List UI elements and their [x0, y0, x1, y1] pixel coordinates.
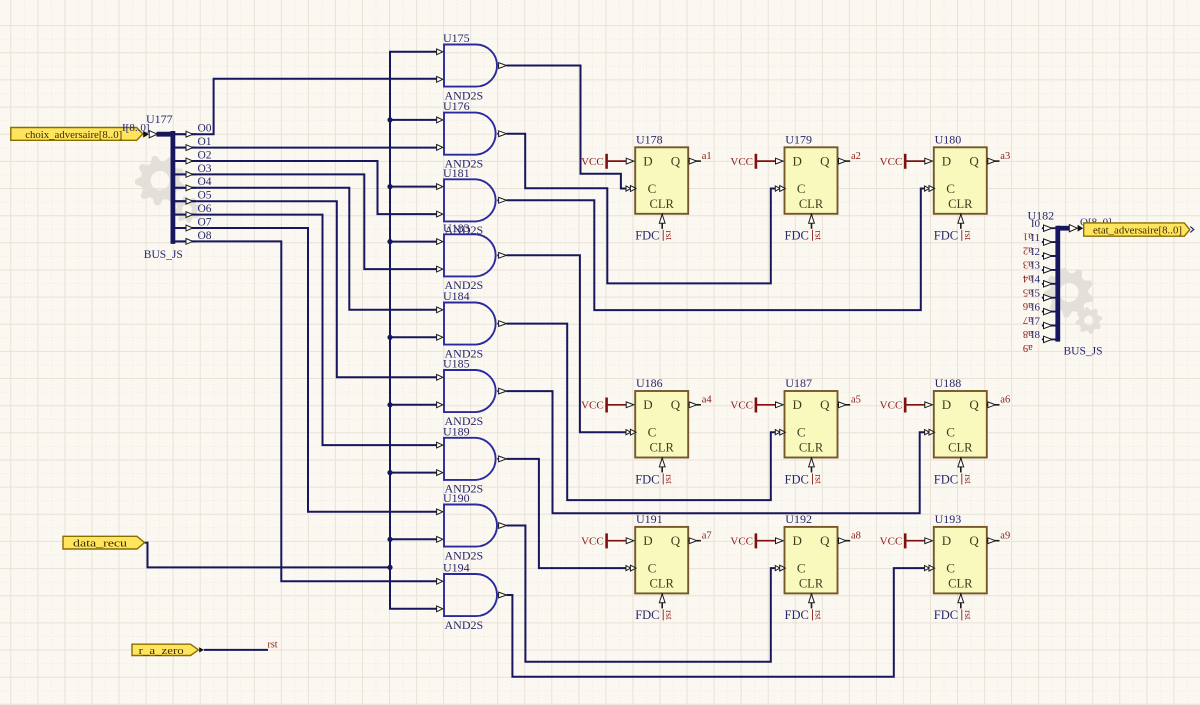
- svg-text:U176: U176: [443, 99, 470, 113]
- svg-text:O3: O3: [198, 163, 212, 175]
- svg-text:U179: U179: [785, 133, 812, 147]
- svg-text:U182: U182: [1028, 209, 1055, 223]
- svg-text:U184: U184: [443, 289, 470, 303]
- svg-text:etat_adversaire[8..0]: etat_adversaire[8..0]: [1093, 225, 1182, 237]
- AND gate U184: [437, 289, 507, 360]
- svg-text:r_a_zero: r_a_zero: [139, 645, 185, 657]
- junction data_recu 1: [387, 117, 392, 122]
- svg-text:D: D: [643, 533, 652, 548]
- wire data_recu tap 4: [390, 336, 437, 338]
- svg-text:C: C: [946, 561, 955, 576]
- svg-text:CLR: CLR: [799, 441, 824, 455]
- wire net O2: [175, 161, 436, 214]
- wire U194.out to U193.C: [507, 568, 925, 677]
- svg-text:VCC: VCC: [581, 536, 604, 548]
- svg-text:O1: O1: [198, 136, 212, 148]
- net tag r_a_zero with rst wire: [132, 639, 278, 657]
- svg-text:Q: Q: [969, 154, 979, 169]
- svg-text:Q: Q: [969, 397, 979, 412]
- svg-text:D: D: [643, 154, 652, 169]
- svg-text:CLR: CLR: [948, 577, 973, 591]
- svg-text:U189: U189: [443, 424, 470, 438]
- svg-text:VCC: VCC: [581, 400, 604, 412]
- svg-text:U188: U188: [935, 376, 962, 390]
- power VCC for U186: [581, 398, 626, 413]
- svg-text:C: C: [648, 181, 657, 196]
- svg-text:D: D: [793, 154, 802, 169]
- svg-text:FDC: FDC: [785, 472, 809, 486]
- AND gate U181: [437, 166, 507, 237]
- wire U189.out to U191.C: [507, 459, 627, 568]
- svg-text:Q: Q: [820, 154, 830, 169]
- svg-text:U181: U181: [443, 166, 470, 180]
- power VCC for U179: [730, 154, 775, 169]
- wire net O0: [175, 79, 436, 134]
- wire data_recu tap 3: [390, 241, 437, 243]
- svg-text:Q: Q: [820, 533, 830, 548]
- svg-text:C: C: [797, 561, 806, 576]
- svg-text:rst: rst: [663, 231, 673, 241]
- junction data_recu 6: [387, 470, 392, 475]
- svg-text:C: C: [946, 425, 955, 440]
- junction data_recu 8: [387, 565, 392, 570]
- svg-text:FDC: FDC: [934, 472, 958, 486]
- wire net O4: [175, 188, 436, 310]
- svg-text:U194: U194: [443, 561, 470, 575]
- svg-text:O2: O2: [198, 149, 212, 161]
- svg-text:O6: O6: [198, 203, 212, 215]
- wire from data_recu tag: [145, 543, 391, 568]
- svg-text:O8: O8: [198, 230, 212, 242]
- AND gate U183: [437, 221, 507, 292]
- AND gate U185: [437, 357, 507, 428]
- svg-text:a3: a3: [1023, 259, 1033, 270]
- svg-text:U190: U190: [443, 491, 470, 505]
- svg-text:C: C: [648, 561, 657, 576]
- svg-text:U186: U186: [636, 376, 663, 390]
- watermark gears left: [135, 156, 200, 223]
- svg-text:Q: Q: [671, 154, 681, 169]
- svg-text:C: C: [797, 181, 806, 196]
- svg-text:D: D: [793, 397, 802, 412]
- svg-text:data_recu: data_recu: [73, 538, 128, 550]
- svg-text:FDC: FDC: [785, 608, 809, 622]
- power VCC for U180: [880, 154, 925, 169]
- svg-text:FDC: FDC: [934, 229, 958, 243]
- junction data_recu 5: [387, 402, 392, 407]
- power VCC for U192: [730, 533, 775, 548]
- svg-text:AND2S: AND2S: [445, 618, 484, 632]
- power VCC for U188: [880, 398, 925, 413]
- svg-text:CLR: CLR: [650, 441, 675, 455]
- wire net O8: [175, 241, 436, 581]
- svg-text:choix_adversaire[8..0]: choix_adversaire[8..0]: [25, 129, 122, 141]
- net tag etat_adversaire[8..0]: [1084, 223, 1194, 237]
- svg-text:a9: a9: [1000, 531, 1010, 542]
- svg-text:VCC: VCC: [730, 400, 753, 412]
- wire data_recu tap 1: [390, 119, 437, 121]
- wire net O1: [175, 147, 436, 149]
- svg-text:Q: Q: [820, 397, 830, 412]
- svg-text:rst: rst: [813, 231, 823, 241]
- power VCC for U187: [730, 398, 775, 413]
- junction data_recu 2: [387, 184, 392, 189]
- svg-text:a1: a1: [702, 151, 712, 162]
- svg-text:FDC: FDC: [934, 608, 958, 622]
- flip-flop U192 (FDC): [775, 512, 861, 622]
- svg-text:a2: a2: [851, 151, 861, 162]
- junction data_recu 4: [387, 335, 392, 340]
- bus combiner U182: [1022, 209, 1102, 358]
- svg-text:D: D: [643, 397, 652, 412]
- AND gate U189: [437, 424, 507, 495]
- svg-text:CLR: CLR: [948, 441, 973, 455]
- svg-text:BUS_JS: BUS_JS: [1064, 345, 1103, 357]
- bus splitter U177: [122, 112, 212, 261]
- svg-text:rst: rst: [962, 474, 972, 484]
- svg-text:C: C: [648, 425, 657, 440]
- wire data_recu tap 5: [390, 404, 437, 406]
- svg-text:rst: rst: [962, 610, 972, 620]
- svg-text:U191: U191: [636, 512, 663, 526]
- svg-text:VCC: VCC: [730, 536, 753, 548]
- power VCC for U178: [581, 154, 626, 169]
- svg-text:VCC: VCC: [880, 400, 903, 412]
- svg-text:a1: a1: [1023, 231, 1033, 242]
- svg-text:U185: U185: [443, 357, 470, 371]
- flip-flop U179 (FDC): [775, 133, 861, 243]
- svg-text:a3: a3: [1000, 151, 1010, 162]
- net tag data_recu: [63, 536, 145, 549]
- svg-text:O7: O7: [198, 216, 212, 228]
- wire U183.out to U186.C: [507, 255, 627, 432]
- svg-text:a2: a2: [1023, 245, 1033, 256]
- wire data_recu tap 2: [390, 186, 437, 188]
- svg-text:CLR: CLR: [650, 197, 675, 211]
- svg-text:a7: a7: [702, 531, 712, 542]
- flip-flop U193 (FDC): [925, 512, 1011, 622]
- svg-text:a6: a6: [1023, 300, 1033, 311]
- svg-text:VCC: VCC: [581, 156, 604, 168]
- svg-text:D: D: [942, 154, 951, 169]
- svg-text:CLR: CLR: [650, 577, 675, 591]
- wire U181.out to U180.C: [507, 189, 925, 311]
- wire net O7: [175, 228, 436, 512]
- svg-text:U180: U180: [935, 133, 962, 147]
- svg-text:U178: U178: [636, 133, 663, 147]
- net tag choix_adversaire[8..0]: [11, 128, 143, 141]
- AND gate U194: [437, 561, 507, 632]
- svg-text:D: D: [793, 533, 802, 548]
- svg-text:rst: rst: [663, 610, 673, 620]
- svg-text:a8: a8: [851, 531, 861, 542]
- flip-flop U187 (FDC): [775, 376, 861, 486]
- svg-text:a5: a5: [851, 395, 861, 406]
- wire U184.out to U187.C: [507, 324, 776, 501]
- svg-text:C: C: [946, 181, 955, 196]
- svg-text:VCC: VCC: [880, 156, 903, 168]
- wire U175.out to U178.C: [507, 66, 627, 189]
- wire U190.out to U192.C: [507, 526, 776, 662]
- svg-text:FDC: FDC: [635, 472, 659, 486]
- svg-text:rst: rst: [813, 610, 823, 620]
- svg-text:U177: U177: [146, 112, 173, 126]
- flip-flop U186 (FDC): [626, 376, 712, 486]
- power VCC for U191: [581, 533, 626, 548]
- svg-text:Q: Q: [671, 533, 681, 548]
- junction data_recu 7: [387, 537, 392, 542]
- svg-text:I[8..0]: I[8..0]: [122, 122, 150, 134]
- watermark gears right: [1044, 268, 1102, 334]
- wire net O5: [175, 201, 436, 377]
- svg-text:a9: a9: [1023, 342, 1033, 353]
- svg-text:U183: U183: [443, 221, 470, 235]
- svg-text:VCC: VCC: [730, 156, 753, 168]
- svg-text:O0: O0: [198, 123, 212, 135]
- AND gate U175: [437, 31, 507, 102]
- flip-flop U191 (FDC): [626, 512, 712, 622]
- svg-text:Q: Q: [969, 533, 979, 548]
- svg-text:O5: O5: [198, 190, 212, 202]
- svg-text:O4: O4: [198, 176, 212, 188]
- svg-text:FDC: FDC: [635, 229, 659, 243]
- svg-text:D: D: [942, 397, 951, 412]
- svg-text:Q: Q: [671, 397, 681, 412]
- svg-text:rst: rst: [813, 474, 823, 484]
- svg-text:a4: a4: [702, 395, 713, 406]
- svg-text:CLR: CLR: [799, 577, 824, 591]
- svg-text:a4: a4: [1022, 272, 1033, 283]
- AND gate U176: [437, 99, 507, 170]
- wire data_recu vertical trunk: [390, 52, 437, 609]
- AND gate U190: [437, 491, 507, 562]
- svg-text:C: C: [797, 425, 806, 440]
- svg-text:D: D: [942, 533, 951, 548]
- svg-text:U193: U193: [935, 512, 962, 526]
- svg-text:BUS_JS: BUS_JS: [144, 249, 183, 261]
- svg-text:a6: a6: [1000, 395, 1010, 406]
- wire U176.out to U179.C: [507, 134, 776, 284]
- svg-text:U192: U192: [785, 512, 812, 526]
- svg-text:VCC: VCC: [880, 536, 903, 548]
- svg-text:a8: a8: [1023, 328, 1033, 339]
- power VCC for U193: [880, 533, 925, 548]
- svg-text:U175: U175: [443, 31, 470, 45]
- svg-text:U187: U187: [785, 376, 812, 390]
- flip-flop U180 (FDC): [925, 133, 1011, 243]
- wire net O6: [175, 215, 436, 446]
- svg-text:rst: rst: [962, 231, 972, 241]
- svg-text:CLR: CLR: [799, 197, 824, 211]
- wire data_recu tap 7: [390, 538, 437, 540]
- svg-text:FDC: FDC: [785, 229, 809, 243]
- wire data_recu tap 6: [390, 472, 437, 474]
- flip-flop U178 (FDC): [626, 133, 712, 243]
- svg-text:rst: rst: [268, 639, 278, 650]
- svg-text:a7: a7: [1023, 314, 1033, 325]
- svg-text:a5: a5: [1023, 286, 1033, 297]
- svg-text:CLR: CLR: [948, 197, 973, 211]
- svg-text:rst: rst: [663, 474, 673, 484]
- svg-text:FDC: FDC: [635, 608, 659, 622]
- wire net O3: [175, 174, 436, 269]
- wire U185.out to U188.C: [507, 391, 925, 513]
- flip-flop U188 (FDC): [925, 376, 1011, 486]
- junction data_recu 3: [387, 239, 392, 244]
